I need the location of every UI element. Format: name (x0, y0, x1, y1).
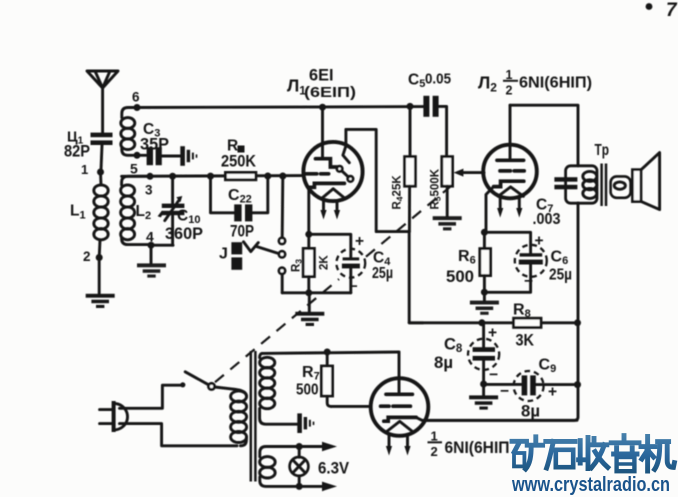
resistor R7 (321, 366, 332, 396)
V2 cathode node (481, 229, 488, 236)
ground under L1 (86, 294, 115, 308)
node L2 bottom (148, 242, 155, 249)
C6 plates (520, 253, 543, 256)
V1 heater (323, 189, 344, 198)
variable capacitor C10 (171, 176, 174, 203)
V3 heater (387, 421, 413, 431)
potentiometer R5 body (442, 157, 453, 187)
node R-C22 right (264, 173, 271, 180)
V1 eye link (342, 171, 349, 177)
power transformer core (250, 351, 253, 482)
tube V1 (L1 6E1) envelope (303, 142, 362, 201)
svg-text:8µ: 8µ (434, 354, 453, 372)
C6 bottom lead (484, 265, 530, 293)
R5 wiper arrow to V2 grid (460, 171, 484, 174)
V3 grid dashes (381, 404, 411, 408)
speaker cone (641, 153, 660, 210)
wire C3 to earth (162, 155, 181, 158)
wire C8 node to ground (482, 384, 485, 395)
svg-text:6EI: 6EI (309, 67, 334, 85)
resistor R8 body (514, 318, 541, 327)
svg-text:(6EIП): (6EIП) (304, 84, 356, 101)
resistor R3 body (303, 248, 314, 276)
cathode bottom wire (282, 291, 351, 294)
node pin3 (147, 173, 154, 180)
HV secondary winding (260, 353, 262, 357)
capacitor C5 plates (423, 96, 429, 117)
V3 anode lead (398, 352, 401, 394)
svg-text:R425K: R425K (392, 175, 405, 210)
svg-text:3: 3 (145, 183, 153, 198)
wire R6 bottom to ground (483, 292, 486, 300)
pilot lamp (298, 447, 301, 458)
jack J tip arrow (244, 242, 259, 252)
ganged switch dashed link (215, 182, 457, 383)
V2 grid dashes (500, 169, 524, 173)
node C8 top (478, 319, 485, 326)
svg-text:www.crystalradio.cn: www.crystalradio.cn (511, 473, 670, 496)
pin 5 node (134, 152, 141, 159)
svg-text:25µ: 25µ (372, 265, 393, 282)
svg-text:500: 500 (296, 382, 319, 399)
wire R3 bottom to ground (308, 293, 311, 312)
Tp core (600, 164, 603, 207)
node lamp bottom (296, 483, 303, 490)
svg-text:3K: 3K (516, 332, 535, 350)
V1 anode lead (321, 107, 324, 158)
page mark dot top right (646, 3, 653, 10)
svg-text:−: − (489, 367, 498, 384)
node R3 bottom (305, 289, 312, 296)
coil L2 (121, 176, 151, 244)
antenna (87, 71, 118, 133)
capacitor C22 plates (234, 204, 241, 221)
wire C5 to R5 (439, 106, 447, 157)
node jack branch (279, 173, 286, 180)
svg-text:+: + (535, 233, 544, 250)
wire L2 bottom to C10 bottom (151, 244, 173, 247)
svg-text:6NI(6HIП: 6NI(6HIП (445, 438, 510, 457)
svg-text:−: − (500, 383, 509, 400)
capacitor C3 plates (147, 147, 153, 165)
V2 anode plate (497, 158, 524, 162)
svg-text:5: 5 (130, 161, 138, 177)
V2 anode lead (509, 105, 512, 160)
svg-text:500: 500 (446, 268, 474, 286)
antenna coupling coil (pins 6-5) (121, 108, 146, 156)
heater winding 6.3V (260, 447, 299, 457)
V2 anode rail (510, 105, 578, 166)
node R6 bottom (481, 289, 488, 296)
V2 heater pin left (499, 198, 502, 210)
svg-text:82P: 82P (64, 143, 90, 161)
wire jack branch down (281, 176, 284, 238)
V2 cathode (494, 181, 524, 186)
B+ right rail (424, 203, 578, 420)
C4 lead bottom (349, 268, 352, 292)
plug wires (120, 385, 181, 408)
svg-text:2K: 2K (319, 255, 331, 270)
rectifier tube V3 envelope (371, 378, 429, 436)
resistor R6 (483, 232, 486, 249)
node 2 (96, 254, 103, 261)
electrolytic C4 dashed circle (336, 249, 365, 278)
V1 grid dashes (306, 172, 329, 176)
V3 grid lead (331, 405, 370, 408)
capacitor C22 loop (211, 176, 268, 213)
B+ screen rail y323 (409, 321, 513, 324)
jack J contact 2 (279, 251, 285, 257)
wire node2 down (98, 258, 101, 294)
V2 heater (498, 187, 523, 196)
svg-text:+: + (355, 233, 364, 250)
svg-text:2: 2 (506, 84, 513, 98)
svg-text:70P: 70P (230, 223, 254, 241)
svg-text:J: J (219, 246, 228, 263)
watermark kuang-shi-shou-yin-ji (512, 436, 674, 472)
svg-text:35P: 35P (140, 136, 169, 154)
svg-text:6NI(6HIП): 6NI(6HIП) (519, 75, 592, 92)
grid rail y176 (122, 174, 304, 178)
V3 anode plate (386, 392, 412, 396)
switch lever (185, 372, 209, 385)
ground under R5 (433, 216, 462, 230)
tube V2 (L2 half 6N1) envelope (483, 145, 537, 199)
V1 cathode lead (307, 187, 310, 234)
wire L2 node to ground (150, 245, 153, 263)
V2 heater pin right (518, 198, 521, 210)
heater lead arrow top (299, 445, 324, 448)
node R7 top (324, 349, 331, 356)
ground under L2 (137, 263, 166, 277)
wire antenna to node 1 (101, 145, 102, 170)
svg-text:360P: 360P (165, 225, 203, 243)
wire switch to primary (215, 387, 247, 396)
svg-text:6.3V: 6.3V (318, 460, 349, 478)
svg-text:0.05: 0.05 (425, 71, 451, 88)
power transformer primary winding (231, 391, 247, 443)
V3 cathode lead to B+ (416, 417, 577, 420)
V1 deflector electrode (343, 129, 349, 162)
node C8 bottom (480, 381, 487, 388)
ground under R3 (295, 312, 324, 326)
node rail tube V1 anode (319, 104, 326, 111)
label half fraction V3 (428, 429, 443, 460)
earth symbol HV secondary (297, 413, 314, 433)
jack J contact 3 (279, 268, 285, 274)
V1 anode plate (316, 159, 338, 167)
label half fraction (503, 68, 518, 98)
svg-text:7: 7 (666, 0, 678, 21)
svg-text:.003: .003 (533, 211, 561, 228)
svg-text:+: + (488, 325, 497, 342)
heater lead arrow bottom (299, 485, 324, 488)
HV secondary top wire (262, 352, 399, 353)
V1 eye electrode circle b (348, 176, 353, 181)
V1 heater pin left (322, 200, 325, 211)
mains plug (112, 401, 116, 432)
coil L1 (94, 172, 108, 258)
ground under R6 (470, 301, 499, 315)
svg-text:2: 2 (431, 444, 438, 459)
wire C8 node to C9 (484, 383, 522, 386)
node rail right R8 (574, 319, 581, 326)
output transformer Tp primary (566, 166, 597, 203)
wire jack contact3 down (281, 274, 284, 293)
top rail (coil pin6 to C5) (134, 105, 424, 109)
wire cathode node to C4 (309, 234, 351, 258)
capacitor C1 plates (91, 133, 113, 138)
V3 cathode (384, 417, 416, 421)
svg-text:−: − (349, 278, 358, 295)
electrolytic C8 (482, 323, 485, 347)
jack J tip lever (257, 247, 280, 254)
switch fixed contact (180, 382, 185, 387)
speaker driver (632, 170, 641, 202)
node V1 cathode (305, 231, 312, 238)
V1 cathode (309, 183, 345, 187)
resistor Rsh 250K body (225, 172, 256, 179)
V1 heater pin right (336, 201, 339, 211)
jack J body bar (231, 242, 242, 254)
earth symbol right of C3 (180, 146, 197, 166)
svg-text:6: 6 (132, 90, 140, 105)
V1 eye electrode circle a (337, 166, 342, 171)
node lamp top (296, 443, 303, 450)
C4 plates (343, 257, 360, 260)
R5 bottom lead (446, 186, 449, 216)
svg-text:1: 1 (431, 429, 438, 444)
ground under C8 (469, 395, 498, 409)
capacitor C7 plates (554, 177, 577, 182)
node C10 top (169, 173, 176, 180)
wire cathode node to C6 (484, 232, 530, 253)
electrolytic C9 (514, 371, 544, 401)
V1 deflector wire to R4 bottom (346, 129, 409, 231)
node C9 right (574, 381, 581, 388)
svg-text:Tр: Tр (595, 142, 610, 159)
resistor R4 (409, 106, 412, 157)
switch pivot (208, 383, 214, 389)
wire R3 leads (307, 234, 310, 248)
node 1 (97, 169, 104, 176)
svg-text:−: − (524, 273, 533, 290)
node rail R4 top (407, 103, 414, 110)
node rail pin6 (134, 104, 141, 111)
V2 cathode lead (486, 187, 494, 233)
svg-text:8µ: 8µ (521, 403, 540, 421)
jack J contact 1 (279, 238, 285, 244)
wire R4 bottom down to B rail (409, 232, 423, 323)
svg-text:+: + (548, 384, 557, 401)
V3 heater pin right (406, 435, 409, 447)
node R-C22 left (207, 173, 214, 180)
svg-text:25µ: 25µ (549, 267, 572, 284)
V3 heater pin left (388, 434, 391, 447)
svg-text:2: 2 (83, 249, 91, 264)
electrolytic C6 dashed circle (515, 245, 547, 277)
svg-text:250K: 250K (221, 153, 256, 171)
Tp secondary (611, 176, 631, 197)
svg-text:1: 1 (81, 162, 88, 177)
